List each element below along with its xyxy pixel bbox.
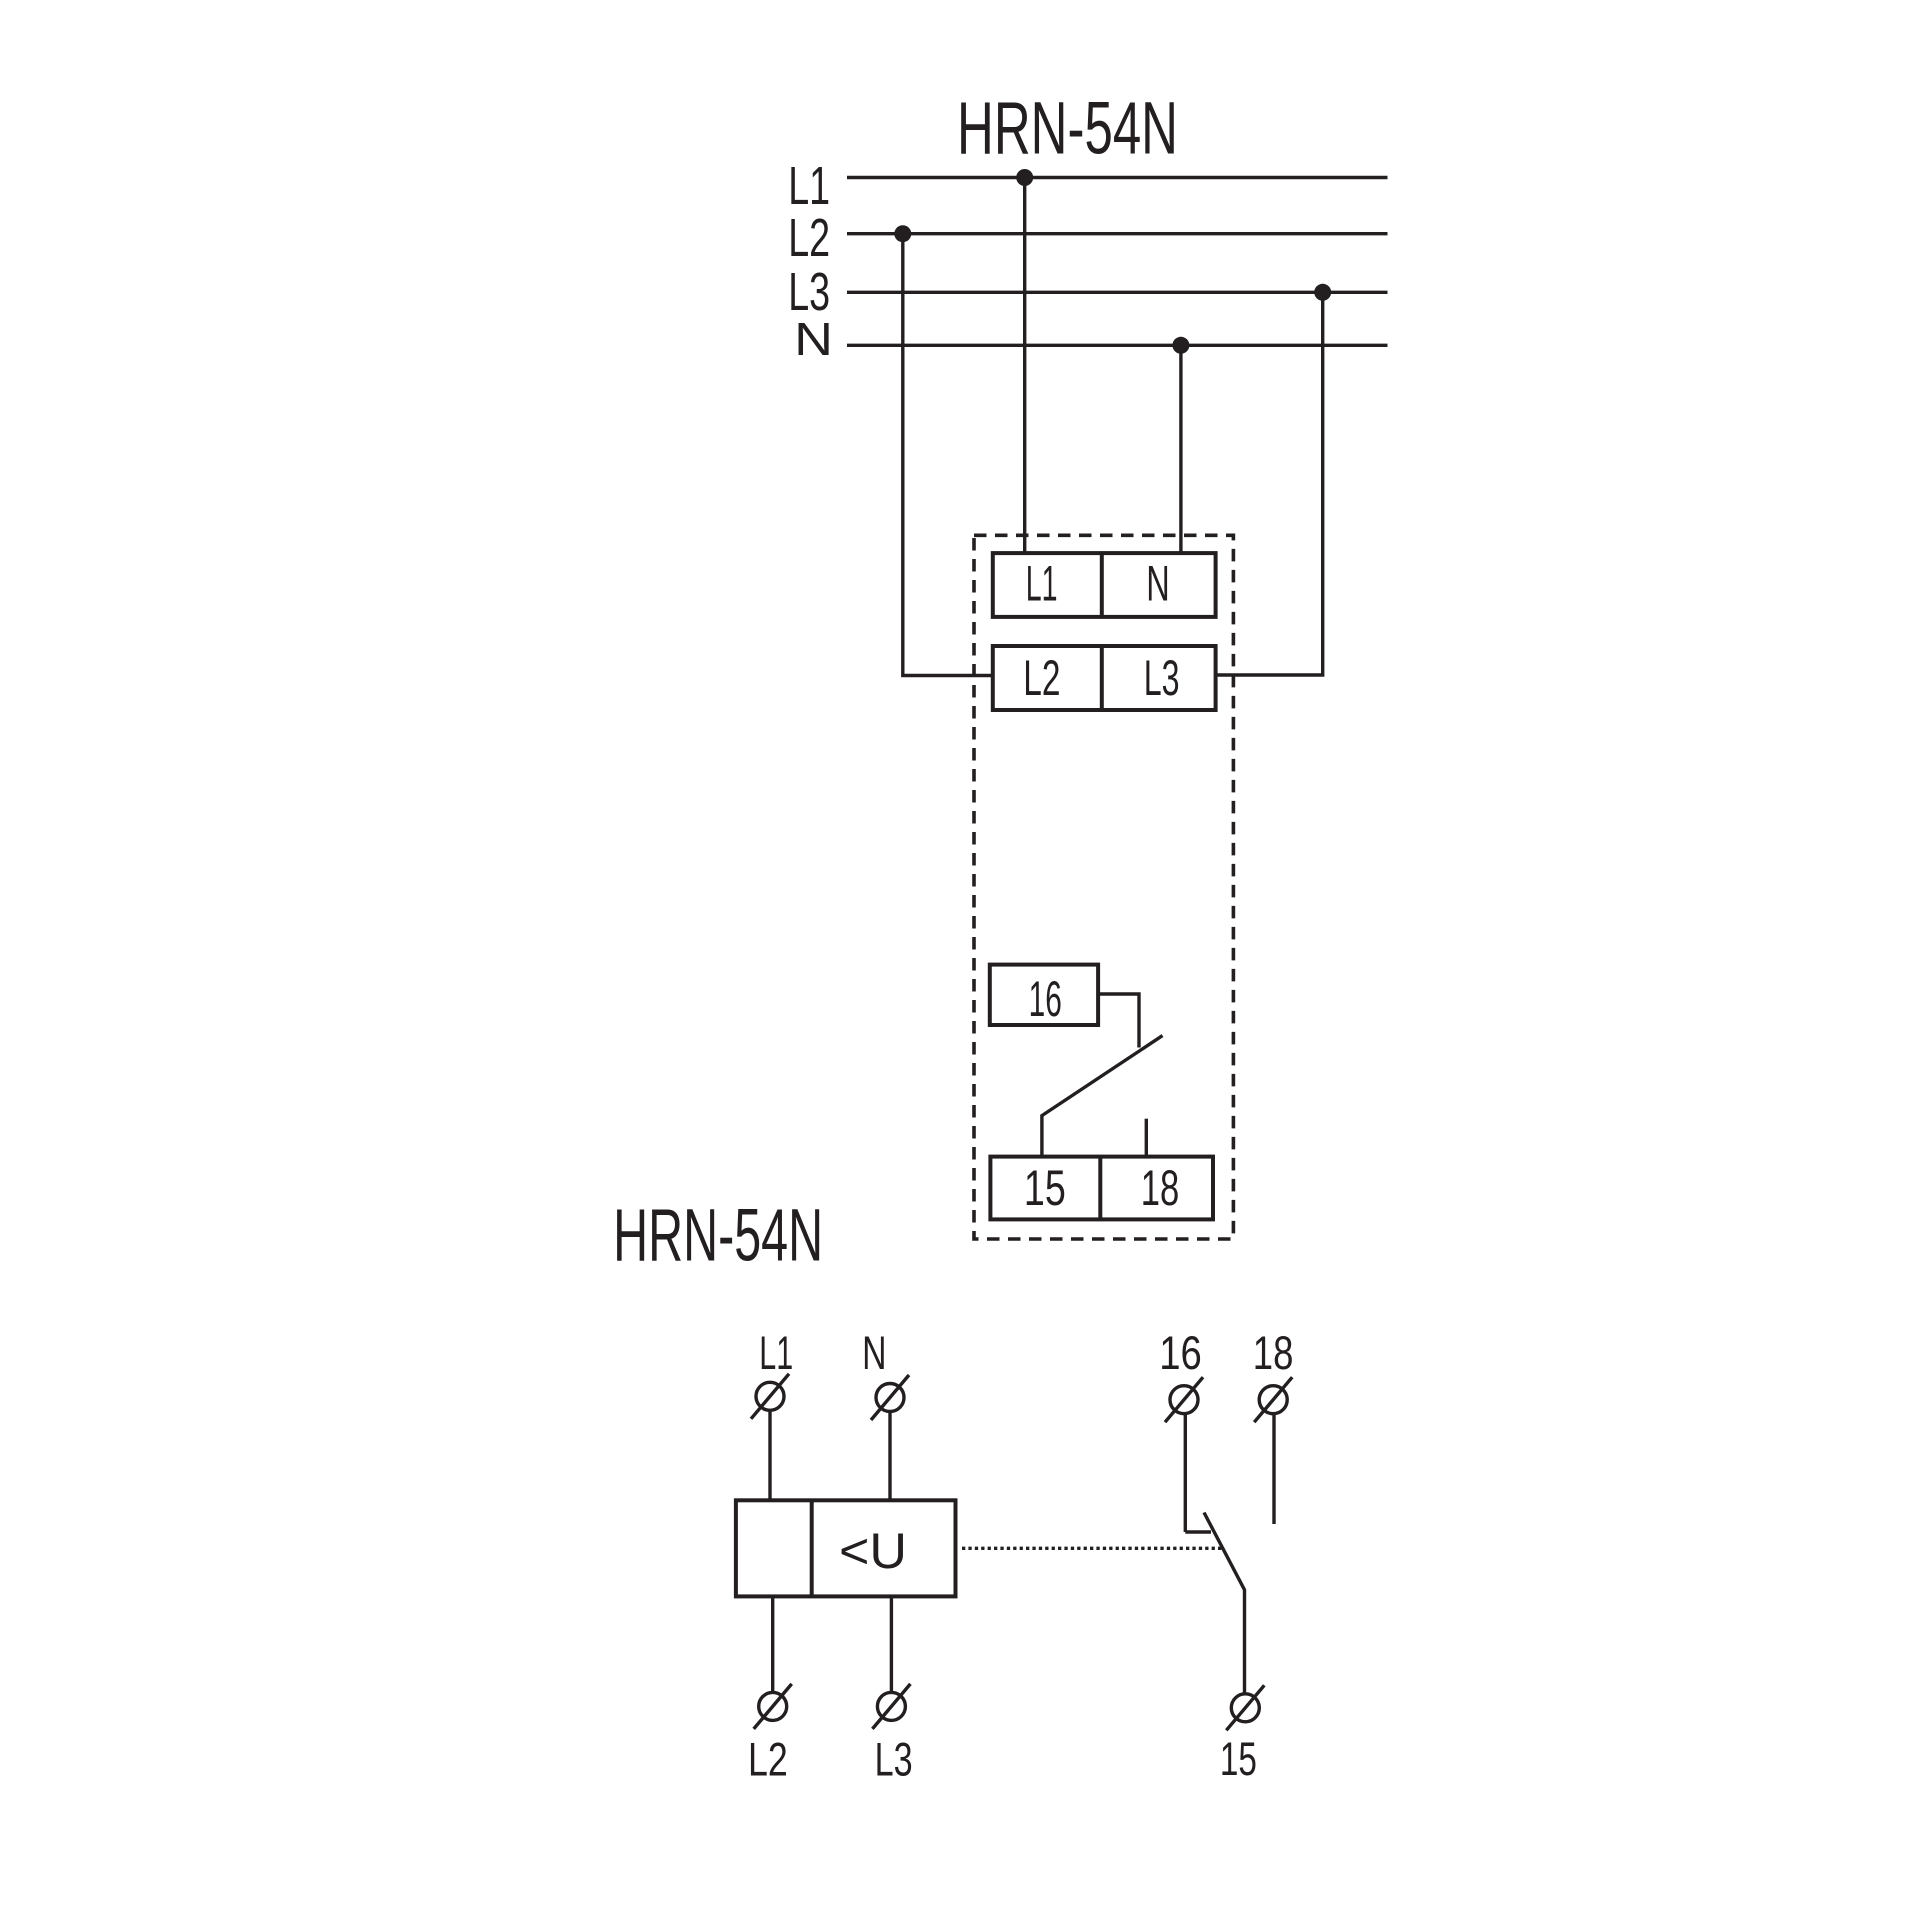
- terminal box 16: [990, 965, 1098, 1025]
- wire stub terminal 18 contact: [1145, 1119, 1148, 1157]
- bus line N: [847, 344, 1388, 347]
- svg-text:L2: L2: [1023, 649, 1060, 706]
- svg-text:15: 15: [1220, 1733, 1257, 1786]
- wire N junction to terminal N: [1179, 345, 1182, 553]
- svg-text:L3: L3: [1144, 649, 1180, 706]
- bus line L2: [847, 232, 1388, 235]
- wire L2 device to terminal: [771, 1596, 774, 1691]
- terminal block L1/N: [993, 553, 1216, 617]
- svg-text:L2: L2: [748, 1734, 788, 1787]
- svg-text:16: 16: [1159, 1327, 1202, 1380]
- screw terminal L1: [751, 1374, 789, 1419]
- svg-text:N: N: [1146, 555, 1170, 612]
- wire stub 18 contact: [1272, 1414, 1275, 1524]
- wire L1 terminal to device: [768, 1411, 771, 1500]
- bus line L1: [847, 176, 1388, 179]
- wire terminal 16 to relay contact: [1098, 994, 1139, 1048]
- svg-text:18: 18: [1141, 1159, 1180, 1216]
- screw terminal 16: [1165, 1377, 1203, 1422]
- svg-text:N: N: [794, 313, 833, 365]
- screw terminal 18: [1254, 1377, 1292, 1422]
- terminal block L2/L3 divider: [1100, 646, 1104, 710]
- screw terminal L2: [754, 1684, 792, 1729]
- bus line L3: [847, 291, 1388, 294]
- wire L2 junction to terminal L2: [903, 234, 993, 676]
- relay contact blade (NC to 16): [1042, 1036, 1163, 1157]
- svg-text:HRN-54N: HRN-54N: [613, 1193, 823, 1276]
- wire N terminal to device: [888, 1412, 891, 1500]
- device body box: [736, 1500, 956, 1596]
- svg-text:N: N: [862, 1327, 886, 1380]
- svg-text:16: 16: [1029, 970, 1062, 1027]
- junction on N: [1172, 337, 1189, 354]
- svg-text:18: 18: [1253, 1327, 1294, 1380]
- wire L3 junction to terminal L3: [1216, 292, 1323, 675]
- terminal block L2/L3: [993, 646, 1216, 710]
- wire L1 junction to terminal L1: [1023, 178, 1026, 554]
- fixed contact seat 16: [1185, 1530, 1211, 1533]
- device body divider: [810, 1500, 814, 1596]
- screw terminal 15: [1226, 1685, 1264, 1730]
- svg-text:L3: L3: [875, 1734, 913, 1787]
- svg-text:HRN-54N: HRN-54N: [957, 87, 1178, 170]
- wire L3 device to terminal: [890, 1596, 893, 1691]
- junction on L1: [1016, 169, 1033, 186]
- screw terminal N: [871, 1375, 909, 1420]
- screw terminal L3: [872, 1684, 910, 1729]
- svg-text:L1: L1: [759, 1327, 793, 1380]
- terminal block 15/18: [990, 1157, 1213, 1220]
- actuation link (dotted): [962, 1547, 1222, 1550]
- svg-text:L1: L1: [788, 156, 830, 216]
- svg-text:<U: <U: [839, 1523, 907, 1579]
- wire 16 terminal to contact: [1184, 1414, 1187, 1532]
- junction on L2: [894, 225, 911, 242]
- junction on L3: [1314, 284, 1331, 301]
- device outline HRN-54N (dashed): [974, 535, 1233, 1239]
- svg-text:15: 15: [1024, 1159, 1066, 1216]
- terminal block 15/18 divider: [1098, 1157, 1102, 1220]
- moving contact blade to 15: [1204, 1513, 1245, 1693]
- svg-text:L1: L1: [1026, 555, 1058, 612]
- svg-text:L2: L2: [788, 208, 830, 268]
- terminal block L1/N divider: [1100, 553, 1104, 617]
